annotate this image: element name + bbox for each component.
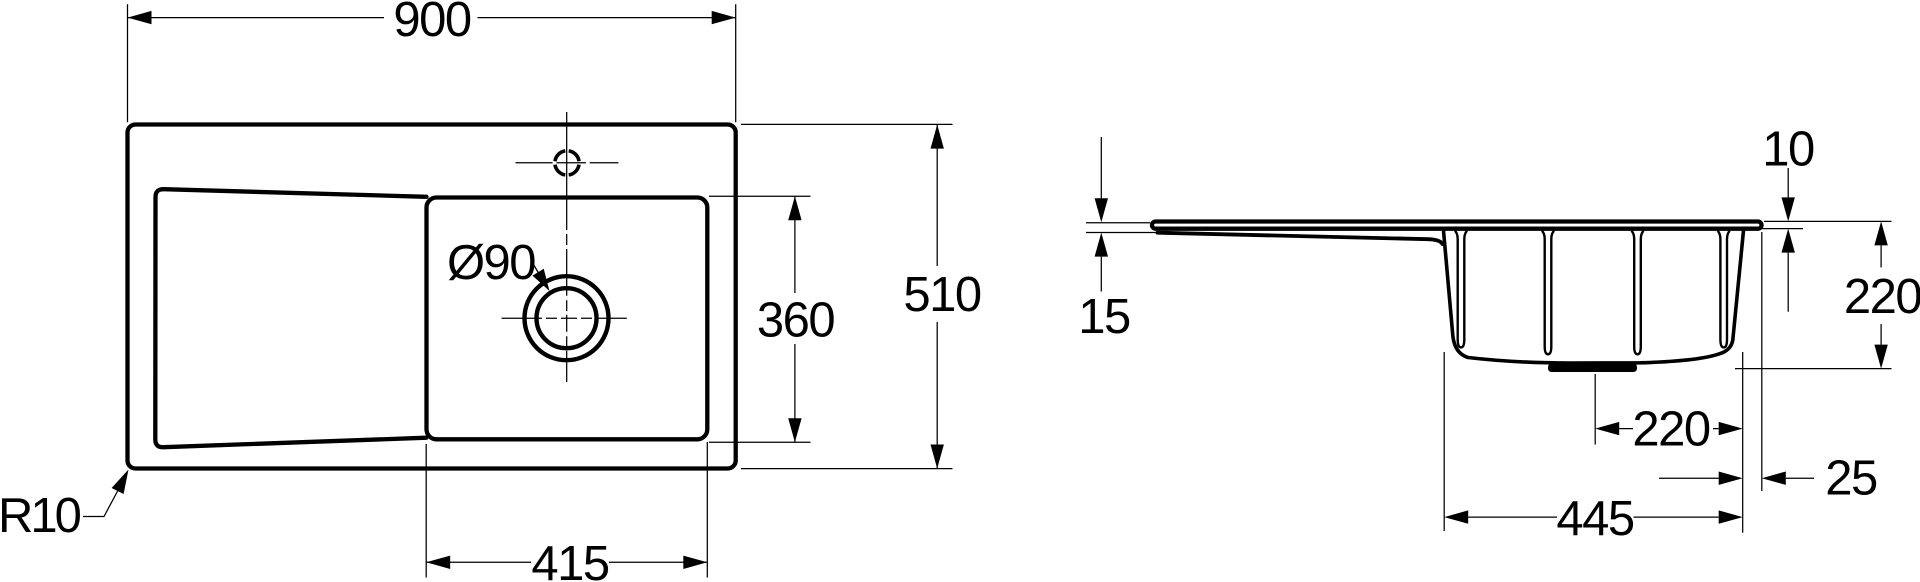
- extension line below bowl left (section view): [1443, 352, 1445, 531]
- bowl interior rib line 3 (section view): [1631, 231, 1643, 354]
- dimension 25: dimension line with arrows: [1659, 477, 1814, 479]
- drain inner circle: [537, 288, 597, 348]
- bowl profile (section view): [1443, 230, 1743, 364]
- svg-text:15: 15: [1078, 290, 1130, 344]
- drain horizontal centerline: [502, 317, 627, 319]
- dimension 445: dimension line with arrows: [1468, 516, 1719, 518]
- drain outer circle: [525, 276, 609, 360]
- bowl interior rib line 2 (section view): [1542, 231, 1554, 354]
- svg-text:510: 510: [903, 268, 981, 322]
- svg-text:10: 10: [1762, 123, 1814, 177]
- dimension 900: extension lines: [128, 4, 736, 122]
- drainboard outline (plan view): [155, 189, 426, 447]
- dimension 220 bottom: dimension line with arrows: [1619, 428, 1719, 430]
- svg-text:220: 220: [1632, 403, 1710, 457]
- leader arrow for R10: [83, 491, 118, 517]
- leader arrow for Ø90: [532, 262, 548, 289]
- extension line below bowl right (section view): [1742, 352, 1744, 533]
- dimension 10: extension lines: [1759, 221, 1892, 228]
- vertical centerline through tap hole and drain: [566, 112, 568, 382]
- dimension 510: extension lines: [741, 124, 953, 468]
- drainboard underside (section view): [1158, 233, 1443, 244]
- dimension 360: dimension line with arrows: [794, 196, 796, 442]
- dimension 10: dimension line with arrows: [1787, 168, 1789, 312]
- bowl interior rib line 4 (section view): [1718, 231, 1730, 348]
- svg-text:445: 445: [1556, 492, 1634, 546]
- svg-text:220: 220: [1844, 270, 1920, 324]
- svg-text:900: 900: [393, 0, 471, 47]
- dimension 220 depth: dimension line with arrows: [1880, 245, 1882, 344]
- svg-text:Ø90: Ø90: [447, 236, 535, 290]
- extension line below drain centre (section view): [1594, 374, 1596, 445]
- bowl interior rib line 1 (section view): [1455, 231, 1467, 348]
- dimension 415: extension lines: [426, 442, 707, 578]
- svg-text:415: 415: [531, 537, 609, 582]
- dimension 415: dimension line with arrows: [426, 561, 707, 563]
- sink bowl outline (plan view): [427, 198, 708, 440]
- svg-text:25: 25: [1825, 451, 1877, 505]
- sink rim profile (section view): [1152, 222, 1762, 229]
- dimension 360: extension lines: [709, 196, 811, 442]
- dimension 220 depth: extension line: [1735, 368, 1892, 370]
- sink outer outline (plan view): [128, 125, 736, 469]
- drain flange (section view): [1548, 364, 1637, 373]
- tap hole (dashed circle): [555, 151, 579, 175]
- dimension 15: extension lines: [1086, 223, 1159, 233]
- svg-text:360: 360: [757, 294, 835, 348]
- dimension 15: dimension line with arrows: [1100, 137, 1102, 292]
- dimension 900: dimension line with arrows: [128, 17, 736, 19]
- extension line below rim right end (section view): [1761, 232, 1763, 491]
- dimension 510: dimension line with arrows: [936, 125, 938, 469]
- tap hole horizontal centerline: [516, 162, 619, 164]
- svg-text:R10: R10: [0, 489, 81, 543]
